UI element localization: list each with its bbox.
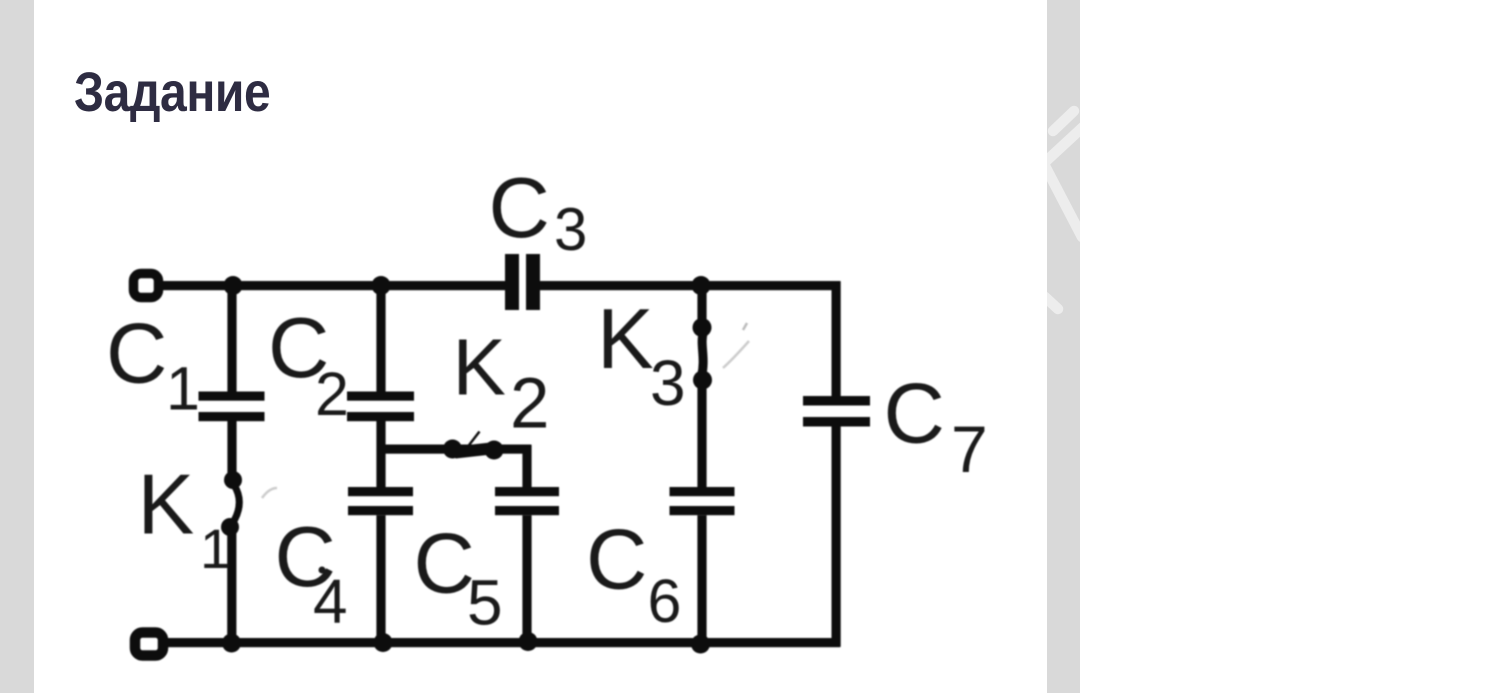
stray ink dot near C4 label [319,567,326,574]
capacitor C2 plates [347,392,414,422]
svg-text:K: K [453,323,506,412]
switch K3 blade [702,332,704,376]
terminal top-left [134,274,159,298]
svg-text:C: C [586,513,647,608]
label C4 [275,510,348,637]
svg-text:1: 1 [166,354,200,422]
label K2 [453,323,550,444]
label C7 [884,367,988,487]
svg-text:7: 7 [951,412,988,486]
switch K3 upper contact dot [693,318,712,337]
wire C4-to-bottom segment [376,515,385,642]
switch K1 blade [232,485,240,525]
scan artifact near K1 [262,488,277,498]
svg-text:6: 6 [648,567,682,635]
svg-text:4: 4 [313,568,347,637]
wire K3-to-C6 segment [697,380,706,487]
switch K3 lower contact dot [693,371,712,390]
junction dot bottom bus at C4 [374,633,393,652]
wire right branch lower (from C7) [832,427,841,647]
wire bottom bus [164,638,840,647]
right gray divider strip [1047,0,1080,693]
svg-text:K: K [138,458,195,553]
junction dot bottom bus at C5 [519,632,538,651]
wire K3 upper stub [697,286,706,328]
svg-text:1: 1 [200,517,231,580]
wire K1-to-bottom segment [227,527,236,643]
scan artifact near K3 [723,323,749,368]
svg-text:C: C [106,307,167,402]
wire C2-to-C4 segment [376,421,385,487]
switch K1 lower contact dot [221,518,239,536]
title Задание [74,64,270,120]
label K1 [138,458,232,581]
junction dot bottom bus at C6 [691,635,710,654]
terminal bottom-left [135,633,163,656]
switch K2 blade [455,432,491,453]
svg-text:C: C [489,161,550,256]
junction dot bottom bus at K1 [222,634,241,653]
switch K2 right contact dot [485,441,504,460]
wire top bus left segment [160,281,506,290]
label C2 [268,301,349,428]
wire K2 branch horizontal [381,445,531,454]
watermark chevron in right strip [1047,0,1080,693]
svg-text:3: 3 [650,347,686,419]
capacitor C4 plates [348,487,413,515]
svg-text:2: 2 [315,360,349,428]
wire C1-to-K1 segment [227,421,236,481]
junction dot top bus at C2 [372,276,391,295]
capacitor C7 plates [803,396,870,427]
wire C5 corner segment [522,445,531,487]
switch K2 left contact dot [443,440,462,459]
wire C6-to-bottom segment [697,515,706,642]
circuit schematic [0,0,1010,693]
wire right branch upper (to C7) [832,281,841,396]
wire C5-to-bottom segment [522,515,531,642]
capacitor C6 plates [670,487,735,515]
label C5 [414,517,503,639]
capacitor C3 right plate [526,254,540,310]
svg-text:K: K [597,292,654,387]
label C6 [586,513,681,636]
svg-text:2: 2 [510,365,550,444]
svg-text:3: 3 [554,196,587,263]
wire C1 branch upper [227,281,236,391]
svg-text:C: C [414,517,475,612]
capacitor C1 plates [199,392,265,422]
capacitor C3 left plate [505,254,519,310]
svg-text:5: 5 [467,567,503,639]
wire top bus right segment [540,281,841,290]
capacitor C5 plates [495,487,559,515]
label C1 [106,307,200,423]
left gray sidebar strip [0,0,34,693]
svg-text:C: C [884,367,945,462]
switch K1 upper contact dot [224,471,242,489]
label K3 [597,292,686,419]
wire C2 branch upper [376,281,385,391]
junction dot top bus at C1 [224,276,243,295]
junction dot top bus at K3 [692,276,711,295]
label C3 [489,161,588,263]
